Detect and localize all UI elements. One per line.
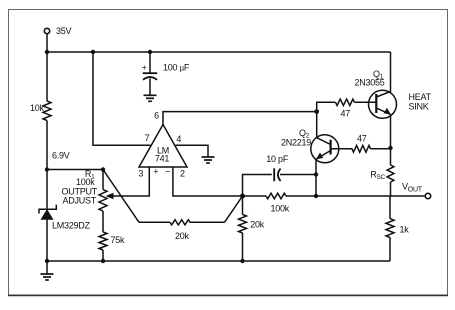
wire Rsc top lead bbox=[390, 148, 392, 165]
capacitor C 100uF bbox=[142, 62, 157, 80]
wire R1 top lead bbox=[102, 170, 104, 190]
svg-text:100k: 100k bbox=[76, 177, 95, 187]
wire 20k row right lead bbox=[190, 221, 225, 223]
svg-text:10k: 10k bbox=[30, 103, 45, 113]
label 6.9V bbox=[52, 151, 70, 161]
resistor R1 100k potentiometer bbox=[99, 190, 107, 212]
svg-text:−: − bbox=[165, 167, 170, 177]
wire bus to Q1 collector bbox=[390, 52, 392, 92]
terminal 35V input bbox=[44, 28, 49, 33]
label ADJUST bbox=[62, 196, 96, 206]
wire 75k to bottom rail bbox=[102, 250, 104, 261]
wire pin4 to ground bbox=[176, 145, 209, 156]
terminal VOUT bbox=[425, 193, 430, 198]
svg-text:3: 3 bbox=[138, 168, 143, 178]
ground bottom-left bbox=[41, 261, 54, 280]
label minus input bbox=[165, 167, 170, 177]
node Rsc top junction bbox=[388, 146, 392, 150]
node 35V bus left junction bbox=[45, 50, 49, 54]
wire pin6 output bbox=[163, 112, 317, 125]
resistor 47 Q1 base bbox=[336, 99, 355, 105]
resistor 47 Q2 base bbox=[352, 145, 371, 152]
svg-text:47: 47 bbox=[341, 109, 351, 119]
resistor 1k bbox=[386, 219, 394, 238]
label OUTPUT bbox=[62, 187, 98, 197]
wire bus to 10k bbox=[46, 52, 48, 101]
resistor 10k bbox=[43, 101, 51, 121]
node bus junction pin7 feed bbox=[91, 50, 95, 54]
label pin 7 bbox=[145, 133, 150, 143]
node 10pF emitter junction bbox=[314, 172, 318, 176]
svg-text:2N2219: 2N2219 bbox=[281, 137, 311, 147]
wire Q2 base lead bbox=[331, 148, 353, 150]
wire Q1 emitter to Rsc node bbox=[390, 114, 392, 148]
label 35V bbox=[56, 26, 72, 36]
svg-text:100k: 100k bbox=[271, 204, 290, 214]
resistor 75k bbox=[99, 232, 107, 250]
wire Q2 emitter down bbox=[315, 159, 317, 196]
label 75k bbox=[111, 235, 126, 245]
node R1 top junction bbox=[101, 167, 105, 171]
label pin 3 bbox=[138, 168, 143, 178]
wire bottom rail bbox=[47, 260, 390, 262]
label pin 2 bbox=[180, 168, 185, 178]
label LM 741 bbox=[155, 145, 170, 163]
op-amp U1 LM741 triangle bbox=[139, 125, 187, 168]
resistor 100k feedback bbox=[266, 193, 286, 199]
node ground rail left junction bbox=[45, 259, 49, 263]
wire 47 to Rsc node bbox=[371, 148, 391, 150]
svg-text:75k: 75k bbox=[111, 235, 126, 245]
ground below 100uF bbox=[144, 79, 157, 102]
wire 20k row left lead bbox=[139, 221, 170, 223]
svg-text:RSC: RSC bbox=[370, 170, 385, 182]
wire 20k vertical to bottom rail bbox=[242, 233, 244, 261]
wire op-amp pin3 to wiper bbox=[112, 167, 149, 196]
transistor Q2 2N2219 bbox=[311, 135, 339, 163]
node 6.9V junction bbox=[45, 167, 49, 171]
label LM329DZ bbox=[52, 221, 91, 231]
transistor Q1 2N3055 bbox=[369, 90, 397, 118]
wire 100k to output node bbox=[286, 195, 316, 197]
label pin 6 bbox=[154, 110, 159, 120]
label 47 Q1 base bbox=[341, 109, 351, 119]
svg-text:20k: 20k bbox=[175, 231, 190, 241]
wire 10k to 6.9V node bbox=[46, 121, 48, 170]
svg-text:741: 741 bbox=[155, 153, 170, 163]
label 20k vertical bbox=[250, 219, 265, 229]
label 100k feedback bbox=[271, 204, 290, 214]
node pin6 drive junction bbox=[314, 109, 319, 114]
label Q1 bbox=[373, 69, 384, 81]
wire R1 top diagonal to 20k bbox=[103, 170, 139, 223]
node bottom rail R1 junction bbox=[101, 259, 105, 263]
svg-text:VOUT: VOUT bbox=[402, 182, 423, 194]
svg-text:4: 4 bbox=[176, 134, 181, 144]
wire inverting node to 20k vertical bbox=[242, 196, 244, 215]
label 1k bbox=[400, 224, 410, 234]
label R1 bbox=[85, 169, 95, 181]
resistor 20k horizontal bbox=[170, 220, 190, 225]
svg-text:1k: 1k bbox=[400, 224, 410, 234]
wire 35V top bus bbox=[47, 51, 391, 53]
svg-text:47: 47 bbox=[357, 133, 367, 143]
ground at pin 4 bbox=[202, 157, 215, 163]
svg-text:ADJUST: ADJUST bbox=[62, 196, 96, 206]
wire bus to 100uF bbox=[149, 52, 151, 73]
wire R1 to 75k bbox=[102, 211, 104, 232]
node bottom rail 20k junction bbox=[240, 259, 244, 263]
label HEAT SINK bbox=[409, 92, 432, 111]
label pin 4 bbox=[176, 134, 181, 144]
svg-text:35V: 35V bbox=[56, 26, 72, 36]
label plus input bbox=[153, 167, 158, 177]
wire Rsc to output row bbox=[390, 182, 392, 196]
svg-text:SINK: SINK bbox=[409, 102, 429, 112]
wire inverting node to 10pF bbox=[243, 175, 272, 197]
svg-text:6.9V: 6.9V bbox=[52, 151, 70, 161]
wire pin7 supply bbox=[93, 52, 151, 145]
resistor Rsc bbox=[387, 165, 394, 182]
wire inverting node to 100k bbox=[243, 195, 267, 197]
label VOUT bbox=[402, 182, 423, 194]
label 10k bbox=[30, 103, 45, 113]
svg-text:+: + bbox=[142, 62, 147, 72]
wire output row to 1k bbox=[389, 196, 391, 219]
label 10pF bbox=[266, 154, 289, 164]
wire 1k to bottom rail bbox=[389, 238, 391, 262]
svg-text:7: 7 bbox=[145, 133, 150, 143]
svg-text:100 µF: 100 µF bbox=[163, 62, 190, 72]
label 100uF bbox=[163, 62, 190, 72]
resistor 20k vertical bbox=[239, 215, 247, 234]
capacitor 10pF bbox=[274, 168, 280, 181]
svg-text:10 pF: 10 pF bbox=[266, 154, 289, 164]
wire drive node vertical bbox=[317, 102, 336, 138]
wire 47 to Q1 base bbox=[355, 101, 377, 103]
wire 35V terminal to bus bbox=[46, 34, 48, 52]
svg-text:20k: 20k bbox=[250, 219, 265, 229]
svg-text:2N3055: 2N3055 bbox=[355, 77, 385, 87]
wire 6.9V node to R1 top bbox=[47, 169, 103, 171]
label Rsc bbox=[370, 170, 385, 182]
svg-text:2: 2 bbox=[180, 168, 185, 178]
wire zener to ground rail bbox=[46, 219, 48, 261]
label 2N3055 bbox=[355, 77, 385, 87]
node output row emitter junction bbox=[314, 194, 318, 198]
wire pin2 to inverting node bbox=[173, 167, 243, 196]
svg-text:+: + bbox=[153, 167, 158, 177]
svg-text:LM329DZ: LM329DZ bbox=[52, 221, 91, 231]
wiper arrowhead bbox=[106, 193, 114, 199]
wire 6.9V node to zener bbox=[46, 170, 48, 210]
wire diagonal 20k to inverting node bbox=[225, 196, 243, 222]
label 47 Q2 base bbox=[357, 133, 367, 143]
svg-text:6: 6 bbox=[154, 110, 159, 120]
node bus junction capacitor feed bbox=[148, 50, 152, 54]
label 100k of R1 bbox=[76, 177, 95, 187]
wire output row bbox=[316, 195, 425, 197]
label 20k horizontal bbox=[175, 231, 190, 241]
diode zener LM329DZ bbox=[39, 205, 56, 220]
node inverting input junction bbox=[240, 194, 245, 199]
label 2N2219 bbox=[281, 137, 311, 147]
wire 10pF to Q2 emitter node bbox=[280, 174, 316, 176]
label Q2 bbox=[299, 128, 310, 140]
